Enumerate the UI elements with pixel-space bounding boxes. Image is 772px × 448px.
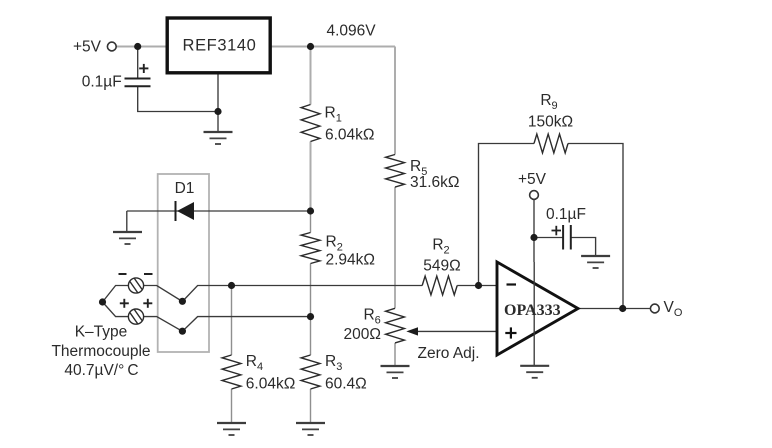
svg-text:150kΩ: 150kΩ xyxy=(528,114,573,131)
resistor R2 2.94k zigzag xyxy=(301,233,320,264)
svg-text:Thermocouple: Thermocouple xyxy=(51,343,150,360)
wire supply rail crossing op-amp body xyxy=(533,262,535,355)
terminal +5V op-amp supply xyxy=(530,191,539,200)
wire thermocouple left apex to top junction xyxy=(103,286,129,303)
svg-text:549Ω: 549Ω xyxy=(423,258,460,275)
node output junction xyxy=(619,305,626,312)
wire REF3140 GND pin down to ground xyxy=(217,74,219,133)
wire down to R5 top xyxy=(394,47,396,155)
ground at diode cathode xyxy=(113,231,142,233)
svg-text:4.096V: 4.096V xyxy=(327,23,377,40)
svg-text:D1: D1 xyxy=(175,180,195,197)
plus sign right xyxy=(143,302,152,304)
svg-text:REF3140: REF3140 xyxy=(183,37,257,55)
svg-text:6.04kΩ: 6.04kΩ xyxy=(325,127,375,144)
wire op-amp output to terminal xyxy=(578,308,651,310)
capacitor C1 plus sign xyxy=(139,67,148,69)
minus sign left xyxy=(119,273,127,275)
node top V junction xyxy=(179,298,186,305)
wire diode D1 horizontal net xyxy=(127,210,311,212)
wire diode cathode down to ground xyxy=(126,211,128,232)
isothermal block box around D1 and thermocouple xyxy=(158,174,209,352)
wire R2 bottom to node at thermocouple lower branch xyxy=(310,264,312,317)
wire top junction V segment xyxy=(144,286,423,302)
node diode R1 R2 junction xyxy=(307,207,314,214)
ground below R3 xyxy=(296,422,325,424)
node bottom V junction xyxy=(179,328,186,335)
wire +5V terminal to REF3140 input xyxy=(116,46,166,48)
svg-text:31.6kΩ: 31.6kΩ xyxy=(410,174,460,191)
ground at C2 xyxy=(581,255,610,257)
svg-text:60.4Ω: 60.4Ω xyxy=(325,376,367,393)
ground below REF3140 xyxy=(204,131,233,133)
capacitor C2 plus sign xyxy=(552,230,562,232)
op-amp minus input sign xyxy=(507,283,517,285)
ground below R4 xyxy=(217,422,246,424)
svg-text:40.7µV/° C: 40.7µV/° C xyxy=(64,362,138,379)
op-amp U1 OPA333 triangle xyxy=(497,262,578,355)
wire node to R3 top xyxy=(310,317,312,355)
wire feedback right vertical to output node xyxy=(568,144,623,309)
wire 4.096V node down to R1 xyxy=(310,47,312,105)
node +5V junction xyxy=(134,43,141,50)
terminal +5V input xyxy=(107,42,116,51)
node thermocouple left apex xyxy=(99,298,106,305)
wire R2 549 to op-amp inverting input xyxy=(457,285,497,287)
wire REF3140 output to 4.096V node and right to R5 column xyxy=(270,46,395,48)
wire R3 bottom to ground xyxy=(310,389,312,423)
thermocouple junction top xyxy=(128,278,143,293)
resistor R3 60.4 zigzag xyxy=(301,355,320,389)
svg-text:0.1µF: 0.1µF xyxy=(82,74,122,91)
resistor R5 31.6k zigzag xyxy=(386,155,405,188)
wire +5V supply to op-amp top xyxy=(533,199,535,262)
resistor R6 200 zigzag xyxy=(386,308,405,343)
svg-text:200Ω: 200Ω xyxy=(344,326,381,343)
svg-text:K–Type: K–Type xyxy=(75,324,128,341)
wire R6 bottom to ground xyxy=(394,343,396,366)
svg-text:0.1µF: 0.1µF xyxy=(546,206,586,223)
wiper arrowhead xyxy=(406,327,418,335)
resistor R9 150k zigzag xyxy=(534,134,568,153)
node 4.096V xyxy=(307,43,314,50)
terminal Vo output xyxy=(650,304,659,313)
wire C1 bottom to REF3140 ground node xyxy=(138,86,218,111)
svg-text:6.04kΩ: 6.04kΩ xyxy=(246,376,296,393)
wire R6 wiper to op-amp non-inverting input xyxy=(416,330,497,332)
svg-text:2.94kΩ: 2.94kΩ xyxy=(326,252,376,269)
REF3140 box U2 xyxy=(167,18,270,73)
op-amp plus input sign xyxy=(505,332,516,334)
resistor R4 6.04k zigzag xyxy=(222,355,241,389)
wire diode node to R2 top xyxy=(310,211,312,233)
capacitor C1 0.1uF plates xyxy=(125,78,151,80)
node op-amp supply bypass junction xyxy=(530,234,537,241)
wire node to R4 top xyxy=(231,286,233,356)
wire feedback left vertical xyxy=(479,144,535,286)
svg-text:OPA333: OPA333 xyxy=(504,302,561,319)
svg-text:+5V: +5V xyxy=(518,171,547,188)
svg-text:+5V: +5V xyxy=(73,39,102,56)
resistor R2 549 zigzag xyxy=(422,276,457,295)
ground below R6 xyxy=(381,365,410,367)
wire R5 bottom to R6 top xyxy=(394,187,396,308)
wire C2 right plate to ground xyxy=(571,238,596,257)
capacitor C2 0.1uF plates xyxy=(562,225,564,250)
wire thermocouple left apex to bottom junction xyxy=(103,302,129,317)
wire R1 bottom to diode node xyxy=(310,142,312,212)
node inverting input feedback junction xyxy=(475,282,482,289)
node R4 tap xyxy=(228,282,235,289)
thermocouple junction bottom xyxy=(128,309,143,324)
wire R4 bottom to ground xyxy=(231,389,233,423)
wire +5V node down to capacitor C1 xyxy=(137,47,139,79)
node REF ground junction xyxy=(214,108,221,115)
plus sign left xyxy=(120,302,129,304)
diode D1 xyxy=(177,202,194,220)
minus sign right xyxy=(144,273,153,275)
svg-text:Zero Adj.: Zero Adj. xyxy=(418,345,480,362)
wire supply node to bypass cap C2 xyxy=(534,237,563,239)
wire bottom junction V segment xyxy=(144,317,311,332)
wire op-amp V- pin to ground xyxy=(533,355,535,366)
resistor R1 6.04k zigzag xyxy=(301,105,320,142)
node R2 R3 junction xyxy=(307,313,314,320)
ground below op-amp xyxy=(520,365,549,367)
